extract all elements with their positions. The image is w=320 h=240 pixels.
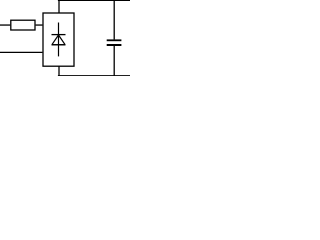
- wire: [113, 1, 115, 40]
- bottom rail wire: [58, 75, 130, 77]
- wire: [36, 24, 43, 26]
- surge-protection diode box U1: [43, 13, 74, 66]
- capacitor C1: [107, 40, 122, 45]
- wire: [58, 1, 60, 14]
- wire: [58, 66, 60, 75]
- wire: [113, 46, 115, 76]
- diode D1 (cathode bar on top, triangle apex up): [52, 23, 66, 57]
- wire: [0, 24, 10, 26]
- resistor R1: [11, 20, 35, 30]
- wire: [0, 51, 42, 53]
- top rail wire: [58, 0, 130, 1]
